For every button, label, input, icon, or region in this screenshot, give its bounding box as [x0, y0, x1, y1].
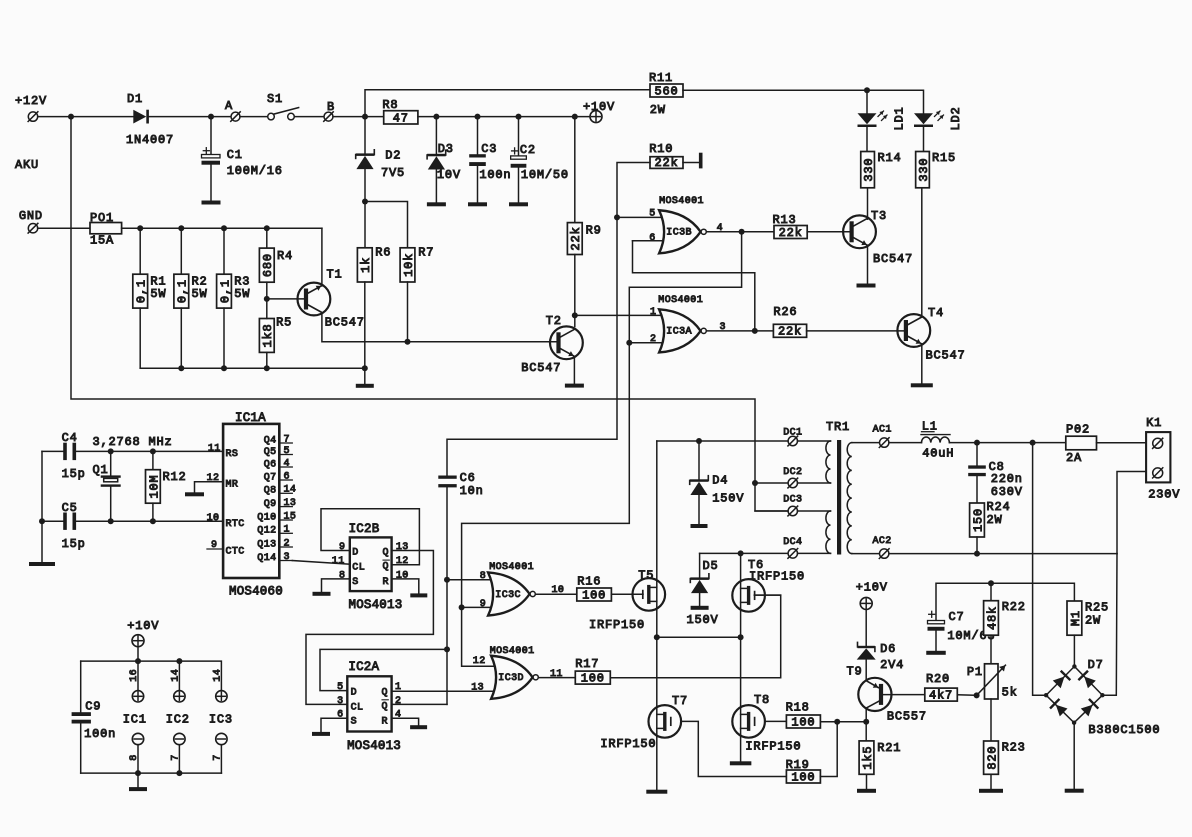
- svg-text:Q: Q: [381, 688, 387, 699]
- svg-text:T7: T7: [672, 694, 688, 708]
- svg-text:D3: D3: [438, 142, 454, 156]
- svg-text:22k: 22k: [779, 226, 803, 240]
- svg-text:P02: P02: [1066, 423, 1090, 437]
- svg-text:820: 820: [985, 746, 999, 770]
- svg-text:1k5: 1k5: [861, 746, 875, 770]
- svg-text:R23: R23: [1002, 741, 1026, 755]
- svg-text:5W: 5W: [150, 287, 166, 301]
- svg-text:D4: D4: [712, 474, 728, 488]
- svg-text:10: 10: [207, 513, 220, 524]
- svg-text:5: 5: [284, 446, 290, 457]
- svg-text:R6: R6: [375, 246, 391, 260]
- svg-text:IC2A: IC2A: [348, 660, 379, 674]
- svg-text:R: R: [381, 717, 387, 728]
- svg-text:13: 13: [471, 682, 484, 693]
- svg-text:Q1: Q1: [93, 463, 109, 477]
- svg-text:GND: GND: [19, 209, 43, 223]
- svg-text:5k: 5k: [1002, 686, 1018, 700]
- svg-text:5: 5: [337, 682, 343, 693]
- svg-text:630V: 630V: [991, 485, 1023, 499]
- svg-text:MOS4013: MOS4013: [349, 598, 403, 612]
- svg-text:16: 16: [129, 669, 140, 682]
- svg-text:BC547: BC547: [873, 252, 913, 266]
- svg-text:10k: 10k: [402, 253, 416, 277]
- svg-text:Q9: Q9: [264, 499, 277, 510]
- svg-text:C4: C4: [62, 431, 78, 445]
- svg-text:+10V: +10V: [856, 581, 888, 595]
- svg-text:14: 14: [213, 669, 224, 682]
- svg-text:Q: Q: [382, 562, 388, 573]
- svg-text:Q5: Q5: [264, 447, 277, 458]
- svg-text:TR1: TR1: [826, 420, 850, 434]
- svg-text:560: 560: [654, 84, 678, 98]
- svg-text:4k7: 4k7: [929, 689, 953, 703]
- svg-text:14: 14: [171, 669, 182, 682]
- svg-text:DC1: DC1: [783, 427, 802, 438]
- svg-text:CL: CL: [351, 703, 364, 714]
- svg-text:0,1: 0,1: [135, 279, 149, 303]
- svg-text:IC3: IC3: [209, 712, 233, 726]
- svg-text:R8: R8: [382, 98, 398, 112]
- svg-text:9: 9: [339, 542, 345, 553]
- svg-text:R11: R11: [649, 71, 673, 85]
- svg-text:R10: R10: [649, 142, 673, 156]
- svg-text:2: 2: [284, 538, 290, 549]
- svg-text:15: 15: [284, 511, 297, 522]
- svg-text:MOS4001: MOS4001: [489, 562, 534, 573]
- svg-text:R22: R22: [1002, 600, 1026, 614]
- svg-text:9: 9: [480, 599, 486, 610]
- svg-text:IC2B: IC2B: [349, 522, 380, 536]
- svg-text:IC1A: IC1A: [235, 411, 266, 425]
- svg-text:T5: T5: [638, 569, 654, 583]
- svg-text:1k: 1k: [359, 257, 373, 273]
- svg-text:R4: R4: [277, 249, 293, 263]
- svg-text:5W: 5W: [192, 287, 208, 301]
- svg-text:AC2: AC2: [873, 536, 892, 547]
- svg-text:S: S: [351, 717, 357, 728]
- svg-text:2A: 2A: [1066, 451, 1082, 465]
- svg-text:MOS4013: MOS4013: [347, 739, 401, 753]
- svg-text:Q7: Q7: [264, 472, 277, 483]
- svg-text:100n: 100n: [479, 168, 511, 182]
- svg-text:R24: R24: [987, 500, 1011, 514]
- svg-text:D2: D2: [385, 149, 401, 163]
- svg-text:2W: 2W: [650, 103, 666, 117]
- svg-text:LD2: LD2: [949, 106, 963, 130]
- svg-text:CTC: CTC: [226, 547, 245, 558]
- svg-text:S: S: [352, 577, 358, 588]
- svg-text:11: 11: [332, 556, 345, 567]
- svg-text:K1: K1: [1146, 416, 1162, 430]
- svg-text:12: 12: [396, 556, 409, 567]
- svg-text:Q12: Q12: [257, 526, 276, 537]
- svg-text:6: 6: [337, 710, 343, 721]
- svg-text:MOS4001: MOS4001: [659, 196, 704, 207]
- svg-text:1: 1: [284, 525, 290, 536]
- svg-text:680: 680: [261, 253, 275, 277]
- svg-text:M1: M1: [1069, 610, 1083, 626]
- svg-text:IRFP150: IRFP150: [600, 737, 656, 751]
- svg-text:100: 100: [791, 715, 815, 729]
- svg-text:150: 150: [971, 508, 985, 532]
- svg-text:+10V: +10V: [583, 100, 615, 114]
- svg-text:D5: D5: [703, 559, 719, 573]
- svg-text:7V5: 7V5: [381, 166, 405, 180]
- svg-text:MOS4001: MOS4001: [658, 295, 703, 306]
- svg-text:1k8: 1k8: [261, 323, 275, 347]
- svg-text:+10V: +10V: [127, 619, 159, 633]
- svg-text:Q14: Q14: [257, 553, 276, 564]
- svg-text:2W: 2W: [1085, 613, 1101, 627]
- svg-text:P1: P1: [967, 665, 983, 679]
- svg-text:48k: 48k: [985, 606, 999, 630]
- svg-text:PO1: PO1: [90, 211, 114, 225]
- svg-text:0,1: 0,1: [218, 279, 232, 303]
- svg-text:100: 100: [791, 770, 815, 784]
- svg-text:10: 10: [396, 570, 409, 581]
- svg-text:22k: 22k: [569, 227, 583, 251]
- svg-text:RS: RS: [226, 449, 239, 460]
- svg-text:CL: CL: [352, 563, 365, 574]
- svg-text:100: 100: [582, 588, 606, 602]
- svg-text:S1: S1: [267, 92, 283, 106]
- svg-text:D6: D6: [880, 642, 896, 656]
- svg-text:3,2768 MHz: 3,2768 MHz: [93, 435, 173, 449]
- svg-text:R9: R9: [586, 224, 602, 238]
- svg-text:8: 8: [339, 570, 345, 581]
- svg-text:T9: T9: [847, 665, 863, 679]
- svg-text:15p: 15p: [62, 467, 86, 481]
- svg-text:2: 2: [395, 696, 401, 707]
- svg-text:IC2: IC2: [166, 712, 190, 726]
- svg-text:R26: R26: [773, 305, 797, 319]
- svg-text:C5: C5: [62, 501, 78, 515]
- svg-text:IRFP150: IRFP150: [749, 570, 805, 584]
- svg-text:1N4007: 1N4007: [126, 133, 174, 147]
- svg-text:6: 6: [284, 471, 290, 482]
- svg-text:R: R: [382, 577, 388, 588]
- svg-text:IRFP150: IRFP150: [589, 618, 645, 632]
- svg-text:8: 8: [129, 754, 140, 760]
- svg-text:40uH: 40uH: [922, 447, 954, 461]
- svg-text:13: 13: [284, 498, 297, 509]
- svg-text:BC557: BC557: [887, 709, 927, 723]
- svg-text:RTC: RTC: [226, 519, 245, 530]
- svg-text:BC547: BC547: [325, 315, 365, 329]
- svg-text:5W: 5W: [234, 287, 250, 301]
- svg-text:IC3A: IC3A: [666, 327, 692, 338]
- svg-text:Q8: Q8: [264, 486, 277, 497]
- svg-text:220n: 220n: [991, 472, 1023, 486]
- svg-text:MR: MR: [226, 479, 239, 490]
- svg-text:3: 3: [284, 552, 290, 563]
- svg-text:R14: R14: [878, 151, 902, 165]
- svg-text:R19: R19: [786, 758, 810, 772]
- svg-text:7: 7: [171, 754, 182, 760]
- svg-text:R5: R5: [276, 315, 292, 329]
- svg-text:Q10: Q10: [257, 512, 276, 523]
- svg-text:11: 11: [208, 443, 221, 454]
- svg-text:100: 100: [581, 672, 605, 686]
- svg-text:MOS4060: MOS4060: [229, 584, 283, 598]
- svg-text:B380C1500: B380C1500: [1088, 723, 1160, 737]
- svg-text:AKU: AKU: [15, 158, 39, 172]
- svg-text:Q6: Q6: [264, 459, 277, 470]
- svg-text:IC3D: IC3D: [498, 673, 524, 684]
- svg-text:0,1: 0,1: [176, 279, 190, 303]
- svg-text:150V: 150V: [712, 492, 744, 506]
- svg-text:2W: 2W: [987, 513, 1003, 527]
- svg-text:R7: R7: [418, 246, 434, 260]
- svg-text:DC4: DC4: [783, 537, 802, 548]
- svg-text:LD1: LD1: [893, 106, 907, 130]
- svg-text:D: D: [351, 688, 357, 699]
- svg-text:IC3C: IC3C: [495, 590, 521, 601]
- svg-text:10n: 10n: [460, 484, 484, 498]
- svg-text:47: 47: [393, 111, 409, 125]
- svg-text:DC2: DC2: [783, 467, 802, 478]
- svg-text:IRFP150: IRFP150: [745, 740, 801, 754]
- svg-text:22k: 22k: [778, 325, 802, 339]
- svg-text:R20: R20: [926, 672, 950, 686]
- svg-text:T2: T2: [546, 314, 562, 328]
- svg-text:D1: D1: [127, 92, 143, 106]
- svg-text:15p: 15p: [62, 537, 86, 551]
- svg-text:R12: R12: [163, 470, 187, 484]
- svg-text:T1: T1: [327, 268, 343, 282]
- svg-text:B: B: [327, 100, 335, 114]
- svg-text:IC1: IC1: [123, 712, 147, 726]
- svg-text:13: 13: [396, 542, 409, 553]
- svg-text:DC3: DC3: [783, 495, 802, 506]
- svg-text:150V: 150V: [687, 613, 719, 627]
- svg-text:BC547: BC547: [926, 349, 966, 363]
- svg-text:T4: T4: [928, 306, 944, 320]
- svg-text:C1: C1: [227, 148, 243, 162]
- svg-text:3: 3: [337, 696, 343, 707]
- svg-text:Q: Q: [381, 701, 387, 712]
- svg-text:C3: C3: [481, 142, 497, 156]
- svg-text:10M/50: 10M/50: [521, 168, 569, 182]
- svg-text:100n: 100n: [84, 727, 116, 741]
- svg-text:R16: R16: [577, 575, 601, 589]
- svg-text:R17: R17: [575, 657, 599, 671]
- svg-text:Q4: Q4: [264, 435, 277, 446]
- svg-text:IC3B: IC3B: [666, 228, 692, 239]
- svg-text:14: 14: [284, 485, 297, 496]
- svg-text:330: 330: [917, 158, 931, 182]
- svg-text:4: 4: [284, 458, 290, 469]
- svg-text:10V: 10V: [437, 168, 461, 182]
- svg-text:100M/16: 100M/16: [227, 164, 283, 178]
- svg-text:A: A: [225, 99, 233, 113]
- svg-text:C6: C6: [460, 471, 476, 485]
- svg-text:4: 4: [395, 710, 401, 721]
- svg-text:Q: Q: [382, 548, 388, 559]
- svg-text:10M: 10M: [147, 474, 161, 498]
- svg-text:R21: R21: [877, 741, 901, 755]
- svg-text:+12V: +12V: [15, 94, 47, 108]
- svg-text:AC1: AC1: [873, 424, 892, 435]
- svg-text:R18: R18: [786, 701, 810, 715]
- svg-text:T3: T3: [871, 209, 887, 223]
- svg-text:15A: 15A: [90, 234, 114, 248]
- svg-text:R13: R13: [773, 213, 797, 227]
- svg-text:330: 330: [862, 158, 876, 182]
- svg-text:D7: D7: [1088, 658, 1104, 672]
- svg-text:7: 7: [213, 754, 224, 760]
- svg-text:C2: C2: [520, 143, 536, 157]
- svg-text:230V: 230V: [1148, 487, 1180, 501]
- svg-text:D: D: [352, 548, 358, 559]
- svg-text:C7: C7: [949, 610, 965, 624]
- svg-text:12: 12: [473, 656, 486, 667]
- svg-text:Q13: Q13: [257, 539, 276, 550]
- svg-text:1: 1: [650, 307, 656, 318]
- svg-text:BC547: BC547: [521, 361, 561, 375]
- svg-text:R15: R15: [932, 151, 956, 165]
- svg-text:6: 6: [649, 233, 655, 244]
- svg-text:C9: C9: [85, 700, 101, 714]
- svg-text:7: 7: [284, 434, 290, 445]
- svg-text:2V4: 2V4: [880, 658, 904, 672]
- svg-text:22k: 22k: [654, 156, 678, 170]
- svg-text:T8: T8: [754, 693, 770, 707]
